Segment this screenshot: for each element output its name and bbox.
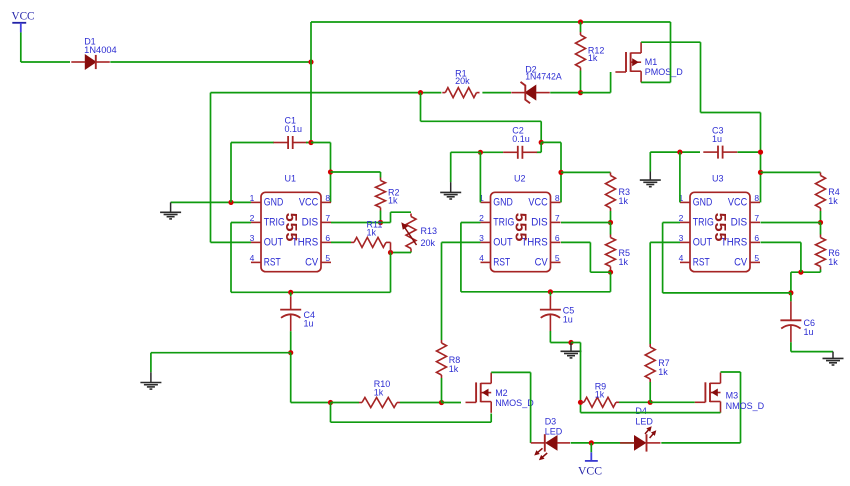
svg-text:3: 3 — [479, 233, 484, 243]
resistor R4 — [816, 173, 826, 212]
svg-text:OUT: OUT — [264, 237, 284, 249]
label R3 value — [619, 187, 631, 206]
svg-text:8: 8 — [754, 193, 759, 203]
resistor R11 — [351, 237, 389, 247]
resistor R9 — [581, 397, 619, 407]
svg-text:5: 5 — [754, 253, 759, 263]
wire U3 OUT to R7 — [650, 242, 680, 344]
svg-text:7: 7 — [325, 213, 330, 223]
LED D3 — [531, 416, 570, 460]
capacitor C3 — [703, 146, 737, 159]
junction C5 bottom / ground3 — [568, 340, 573, 345]
svg-text:1N4004: 1N4004 — [84, 45, 117, 55]
svg-text:DIS: DIS — [731, 217, 748, 229]
ground GND1 (U1) — [160, 202, 181, 219]
svg-text:2: 2 — [679, 213, 684, 223]
svg-text:555: 555 — [512, 213, 529, 243]
svg-text:PMOS_D: PMOS_D — [645, 67, 684, 77]
svg-text:M2: M2 — [495, 388, 508, 398]
junction R2 tap — [328, 169, 333, 174]
svg-text:4: 4 — [679, 253, 684, 263]
svg-text:LED: LED — [635, 416, 653, 426]
wire R11 right bend — [389, 242, 391, 252]
label D1 value — [84, 37, 117, 55]
svg-text:1k: 1k — [619, 257, 629, 267]
wire U1 GND up to C1 left — [230, 143, 232, 203]
label R13 value — [421, 226, 438, 248]
potentiometer R13 wiper arrow — [401, 222, 416, 245]
svg-text:1k: 1k — [828, 196, 838, 206]
junction C4 bottom / ground2 — [288, 350, 293, 355]
ground GND2 (C4) — [140, 353, 161, 389]
svg-text:1N4742A: 1N4742A — [525, 72, 562, 82]
wire D2 to R12/M1 gate node — [550, 92, 580, 94]
svg-text:1u: 1u — [563, 315, 573, 325]
junction R4 / R6 / DIS3 — [818, 220, 823, 225]
junction C2 right node — [539, 140, 544, 145]
svg-text:NMOS_D: NMOS_D — [495, 398, 534, 408]
junction VCC2 flag — [589, 440, 594, 445]
wire R1 to D2 — [482, 92, 511, 94]
svg-text:U2: U2 — [514, 174, 526, 184]
label R4 value — [828, 187, 840, 206]
wire R8 bottom — [441, 378, 443, 403]
wire R13 bottom — [391, 252, 412, 253]
capacitor C1 — [273, 136, 307, 149]
zener diode D2 1N4742A — [511, 82, 550, 103]
LED D4 — [620, 406, 660, 452]
power flag VCC (bottom) — [578, 443, 602, 477]
label R1 value — [455, 69, 470, 86]
wire C2 right jog — [537, 142, 542, 152]
svg-text:VCC: VCC — [728, 197, 747, 209]
svg-text:U3: U3 — [712, 174, 724, 184]
wire R2 top tap — [331, 172, 381, 178]
svg-text:5: 5 — [325, 253, 330, 263]
label R11 value — [367, 220, 383, 238]
label R8 value — [449, 355, 461, 374]
svg-text:1k: 1k — [449, 364, 459, 374]
label C2 value — [512, 126, 530, 144]
capacitor C6 (polarized) — [780, 293, 801, 342]
svg-text:OUT: OUT — [493, 237, 513, 249]
svg-text:1k: 1k — [658, 367, 668, 377]
label C6 value — [804, 318, 816, 337]
label R5 value — [619, 248, 631, 267]
junction C1 right — [308, 140, 313, 145]
wire DIS1 to R13 top — [331, 212, 411, 222]
ground GND6 (C6) — [823, 352, 844, 365]
svg-text:OUT: OUT — [693, 237, 713, 249]
resistor R10 — [359, 398, 400, 408]
junction C6 top / TRIG3 — [788, 290, 793, 295]
svg-text:1u: 1u — [712, 134, 722, 144]
svg-text:0.1u: 0.1u — [512, 134, 530, 144]
wire C3 right — [738, 151, 761, 153]
svg-text:6: 6 — [325, 233, 330, 243]
svg-text:GND: GND — [493, 197, 513, 209]
wire C6 bottom to ground6 — [791, 342, 833, 351]
svg-text:2: 2 — [479, 213, 484, 223]
svg-text:3: 3 — [250, 233, 255, 243]
svg-text:RST: RST — [693, 257, 710, 269]
svg-text:555: 555 — [711, 213, 728, 243]
transistor M2 NMOS_D — [466, 373, 535, 413]
wire C1 left — [231, 142, 274, 144]
svg-text:7: 7 — [754, 213, 759, 223]
svg-text:M3: M3 — [726, 391, 739, 401]
wire DIS2 — [561, 222, 611, 224]
svg-text:2: 2 — [250, 213, 255, 223]
svg-text:M1: M1 — [645, 57, 658, 67]
svg-text:1k: 1k — [374, 388, 384, 398]
resistor R7 — [645, 344, 655, 382]
wire top VCC rail — [311, 21, 671, 23]
wire to ground2 — [151, 352, 291, 354]
svg-text:GND: GND — [693, 197, 713, 209]
wire R5 bottom — [610, 270, 612, 273]
junction R6 / THRS3 — [798, 270, 803, 275]
svg-text:DIS: DIS — [302, 217, 319, 229]
resistor R1 — [442, 88, 479, 98]
svg-text:RST: RST — [264, 257, 281, 269]
resistor R8 — [437, 340, 447, 378]
wire R6 node down to C6 — [790, 272, 792, 293]
svg-text:U1: U1 — [285, 174, 297, 184]
wire VCC column x311 — [310, 22, 312, 143]
label C4 value — [304, 310, 316, 329]
junction R7 / R9 / M3 gate — [648, 400, 653, 405]
wire D1 cathode to vertical node — [110, 61, 311, 63]
label C1 value — [285, 116, 303, 134]
wire R9 right — [619, 401, 650, 403]
wire TRIG1 loop — [231, 223, 391, 293]
junction C4 top — [288, 290, 293, 295]
capacitor C5 (polarized) — [540, 292, 561, 331]
resistor R2 — [376, 178, 386, 211]
label C5 value — [563, 306, 575, 325]
svg-text:1k: 1k — [828, 257, 838, 267]
wire ground1 to U1 GND pin — [171, 201, 251, 203]
svg-text:4: 4 — [250, 253, 255, 263]
wire C2 left — [480, 151, 503, 153]
wire U2 OUT to R8 — [442, 242, 481, 340]
svg-text:VCC: VCC — [299, 197, 318, 209]
capacitor C4 (polarized) — [280, 292, 301, 331]
wire R10 left lead — [331, 402, 360, 404]
ground GND5 (C3) — [640, 152, 661, 187]
label R7 value — [658, 358, 670, 377]
svg-text:8: 8 — [325, 193, 330, 203]
svg-text:5: 5 — [555, 253, 560, 263]
svg-text:1k: 1k — [388, 195, 398, 205]
wire M1 drain to U3 supply — [641, 42, 760, 202]
wire M2 drain to D3 — [491, 372, 530, 443]
wire D4 to M3 drain — [661, 372, 740, 443]
wire R10 right to M2 gate node — [400, 402, 442, 404]
svg-text:1: 1 — [250, 193, 255, 203]
svg-text:NMOS_D: NMOS_D — [726, 401, 765, 411]
svg-text:0.1u: 0.1u — [285, 124, 303, 134]
svg-text:D4: D4 — [635, 406, 647, 416]
wire node to M1 gate — [581, 72, 611, 93]
wire U1 OUT to R1 row — [211, 93, 442, 243]
svg-text:VCC: VCC — [12, 11, 35, 23]
wire C4 bottom — [290, 331, 292, 353]
wire U2 supply feed — [421, 93, 542, 143]
wire THRS1 to R11 — [331, 241, 351, 243]
wire M2 source return — [331, 403, 492, 423]
wire R7 bottom — [649, 382, 651, 402]
svg-text:6: 6 — [555, 233, 560, 243]
wire to M2 gate — [442, 402, 462, 404]
junction R4 tap — [758, 170, 763, 175]
wire R6 bottom — [791, 270, 821, 273]
svg-text:DIS: DIS — [531, 217, 548, 229]
svg-text:D3: D3 — [545, 416, 557, 426]
junction D2 / R12 / M1 gate — [578, 90, 583, 95]
wire R3 top tap — [561, 171, 611, 173]
junction C3 left / U3 GND — [677, 150, 682, 155]
wire VCC to D1 anode — [21, 32, 70, 62]
svg-text:GND: GND — [264, 197, 284, 209]
svg-text:TRIG: TRIG — [493, 217, 514, 229]
wire C1 to U1 VCC pin — [311, 143, 331, 203]
ground GND3 (C5) — [561, 343, 582, 358]
wire R5 top — [610, 223, 612, 235]
wire U2 GND down — [479, 152, 481, 202]
svg-text:CV: CV — [305, 257, 319, 269]
wire THRS2 — [561, 242, 611, 272]
junction R3 tap — [558, 170, 563, 175]
junction R5 / THRS2 — [608, 270, 613, 275]
wire C2 node to U2 VCC pin — [541, 142, 561, 202]
junction D1 wire / VCC column — [308, 59, 313, 64]
wire R13 node down to TRIG1 row — [390, 253, 392, 293]
resistor R5 — [606, 235, 616, 270]
svg-text:6: 6 — [754, 233, 759, 243]
svg-text:3: 3 — [679, 233, 684, 243]
wire D3 to VCC2 — [571, 442, 635, 444]
junction R10 left / M2 source — [328, 400, 333, 405]
junction R8 / R10 / M2 gate — [439, 400, 444, 405]
resistor R6 — [816, 235, 826, 270]
svg-text:RST: RST — [493, 257, 510, 269]
diode D1 1N4004 — [71, 55, 110, 69]
svg-text:VCC: VCC — [578, 465, 602, 477]
op-amp/timer U2 555 — [479, 174, 560, 272]
op-amp/timer U1 555 — [250, 174, 331, 272]
wire C4 node to R10 row — [291, 353, 331, 403]
wire R4 top tap — [761, 171, 821, 173]
svg-text:1k: 1k — [367, 228, 377, 238]
junction R2 / DIS1 — [378, 220, 383, 225]
wire M3 source return — [581, 412, 721, 414]
wire U3 GND down — [679, 152, 681, 202]
transistor M3 NMOS_D — [695, 373, 765, 413]
junction R11 / R13 bottom — [388, 250, 393, 255]
junction R3 / R5 / DIS2 — [608, 220, 613, 225]
junction C5 top — [548, 289, 553, 294]
svg-text:1u: 1u — [804, 327, 814, 337]
label R9 value — [595, 382, 607, 400]
svg-text:555: 555 — [282, 213, 299, 243]
svg-text:VCC: VCC — [528, 197, 547, 209]
ground GND4 (C2) — [440, 152, 461, 199]
svg-text:20k: 20k — [455, 76, 470, 86]
svg-text:CV: CV — [535, 257, 549, 269]
wire R2 bottom — [380, 211, 382, 223]
svg-text:CV: CV — [734, 257, 748, 269]
resistor R12 — [576, 32, 586, 71]
junction R1 row / U2 supply tap — [418, 90, 423, 95]
capacitor C2 — [503, 146, 537, 159]
junction R9 left — [578, 400, 583, 405]
wire C1 right — [306, 142, 311, 144]
label C3 value — [712, 126, 724, 144]
wire TRIG2 loop — [461, 223, 611, 292]
label R6 value — [828, 248, 840, 267]
svg-text:7: 7 — [555, 213, 560, 223]
svg-text:1u: 1u — [304, 319, 314, 329]
junction U1 GND / C1 — [228, 200, 233, 205]
wire M1 source to top rail — [641, 22, 670, 82]
junction C2 left / U2 GND — [478, 150, 483, 155]
wire R12 leads — [580, 22, 582, 93]
op-amp/timer U3 555 — [679, 174, 760, 272]
label R12 value — [588, 46, 605, 64]
wire R4 bottom — [820, 211, 822, 223]
wire C2 left to ground4 — [451, 151, 481, 153]
junction top rail / R12 — [578, 19, 583, 24]
transistor M1 PMOS_D — [615, 42, 683, 82]
wire C3 left — [650, 151, 700, 153]
wire R6 top — [820, 223, 822, 235]
label R2 value — [388, 188, 400, 206]
junction C3 right / supply — [758, 150, 763, 155]
wire C5 node to M3 source column — [571, 343, 581, 413]
potentiometer R13 20k — [406, 214, 416, 252]
wire to M3 gate — [650, 401, 695, 403]
label R10 value — [374, 379, 391, 398]
power flag VCC (top left) — [12, 11, 35, 33]
svg-text:1k: 1k — [619, 196, 629, 206]
svg-text:TRIG: TRIG — [264, 217, 285, 229]
wire TRIG3 loop — [663, 223, 791, 293]
svg-text:1k: 1k — [595, 390, 605, 400]
wire R3 bottom — [610, 211, 612, 223]
svg-text:R13: R13 — [421, 226, 438, 236]
svg-text:4: 4 — [479, 253, 484, 263]
wire DIS3 — [761, 222, 821, 224]
svg-text:1k: 1k — [588, 53, 598, 63]
label D2 value — [525, 65, 562, 82]
svg-text:8: 8 — [555, 193, 560, 203]
wire M3 drain — [721, 371, 741, 373]
svg-text:TRIG: TRIG — [693, 217, 714, 229]
svg-text:LED: LED — [545, 427, 563, 437]
resistor R3 — [606, 173, 616, 212]
wire C5 bottom — [550, 331, 571, 343]
wire THRS3 — [761, 242, 801, 272]
svg-text:20k: 20k — [421, 238, 436, 248]
